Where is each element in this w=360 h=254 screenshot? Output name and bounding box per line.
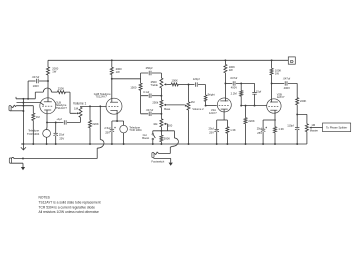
svg-text:220K: 220K xyxy=(300,99,306,103)
node sleeve junction xyxy=(22,110,24,112)
svg-text:Master: Master xyxy=(310,129,318,133)
svg-text:2.5uf: 2.5uf xyxy=(104,126,110,130)
svg-text:1.3K: 1.3K xyxy=(230,128,236,132)
wire J3 sleeve xyxy=(154,158,171,162)
wire treble to bass column xyxy=(160,88,162,100)
svg-text:12AY7: 12AY7 xyxy=(277,95,285,99)
svg-text:25V: 25V xyxy=(59,136,64,140)
node V1B plate junction xyxy=(111,78,113,80)
wire R16 to master node xyxy=(296,105,298,115)
wire jack common down to ground bus xyxy=(22,99,24,144)
potentiometer VR2 250K Treble xyxy=(160,78,163,88)
svg-text:100K: 100K xyxy=(172,79,178,83)
ground chassis symbol at left end of bus xyxy=(21,144,26,150)
resistor R10 100K 1W (V2A plate load) xyxy=(224,64,227,72)
node jack tip junction xyxy=(22,105,24,107)
wire to C12 xyxy=(262,120,264,129)
wire C13 to R16 xyxy=(288,83,297,97)
wire jack switch upper xyxy=(16,97,35,99)
node 2.2M top xyxy=(240,82,242,84)
wire C5 to treble pot xyxy=(152,73,162,78)
triode V2A 12AY7 xyxy=(217,98,231,112)
node V2A supply tap xyxy=(224,59,226,61)
wire V2B grid run xyxy=(241,105,267,107)
svg-text:400V: 400V xyxy=(284,86,290,90)
wire bass bottom xyxy=(160,107,162,113)
triode V2B 12AY7 xyxy=(267,99,281,113)
node jack ground xyxy=(22,143,24,145)
wire R11 to ground xyxy=(226,133,228,144)
svg-text:25V: 25V xyxy=(105,130,110,134)
jack J3 tip contact xyxy=(154,152,159,154)
node V1B supply tap xyxy=(111,59,113,61)
capacitor C13 .047uf 400V xyxy=(285,81,287,85)
wire C1 to input node xyxy=(28,80,35,82)
triode V1A GLB Teledyne TS12AY7 xyxy=(40,98,56,114)
wire cathode to C4 xyxy=(112,121,117,129)
wire B+ supply rail xyxy=(48,59,288,61)
wire master wiper to output xyxy=(312,127,323,129)
wire R2 to volume 1 wiper xyxy=(65,92,76,113)
resistor R11 1.3K xyxy=(226,127,229,134)
wire V2B cathode lead xyxy=(274,110,276,120)
resistor R14 100K 1W (V2B plate load) xyxy=(270,68,273,75)
node R4 junction xyxy=(89,105,91,107)
wire to C14 xyxy=(296,114,298,127)
node R8 ground xyxy=(160,143,162,145)
wire C6 to pot column xyxy=(152,95,162,97)
wire to R11 xyxy=(226,120,228,127)
jack J2 tip contact xyxy=(11,157,15,158)
wire tip to R3 xyxy=(32,106,34,113)
svg-text:400V: 400V xyxy=(231,85,237,89)
node SW1 ground xyxy=(152,143,154,145)
switch SW1 cut-boost xyxy=(152,131,155,144)
wire C7 to mid pot xyxy=(152,113,162,115)
wire R6 to mid cap xyxy=(141,90,149,95)
wire V1A plate supply drop xyxy=(47,60,49,67)
capacitor C9 25uf 25V electrolytic xyxy=(215,128,219,130)
svg-text:To Phase Splitter: To Phase Splitter xyxy=(326,126,347,130)
svg-text:25V: 25V xyxy=(209,131,214,135)
svg-text:1500: 1500 xyxy=(130,85,136,89)
capacitor C11 15pf xyxy=(254,83,256,92)
svg-text:1W: 1W xyxy=(229,68,233,72)
wire main ground bus xyxy=(21,143,307,145)
svg-text:NOTES: NOTES xyxy=(39,196,51,200)
svg-text:1M: 1M xyxy=(311,123,315,127)
svg-text:100V: 100V xyxy=(33,84,39,88)
wire V2A cathode bar xyxy=(217,119,228,121)
wire tone top riser xyxy=(141,73,149,79)
node R12 bottom xyxy=(240,105,242,107)
ground symbol at J3 xyxy=(169,163,173,166)
svg-text:.047uf: .047uf xyxy=(32,75,40,79)
wire V1B plate drop xyxy=(111,60,113,67)
wire jack middle contact xyxy=(17,103,44,106)
capacitor C1 .047uf 100V xyxy=(36,79,38,83)
wire C2 to volume1 bottom xyxy=(67,117,81,122)
wire volume2 bottom to ground xyxy=(188,110,190,144)
wire wiper node to V2A grid xyxy=(206,105,217,107)
wire D1 to ground xyxy=(46,137,48,144)
svg-text:220K: 220K xyxy=(248,119,254,123)
wire plate to C10 xyxy=(225,82,232,84)
node D2 ground xyxy=(123,143,125,145)
svg-text:.047uf: .047uf xyxy=(230,76,238,80)
wire to master pot top xyxy=(297,114,307,123)
svg-text:110pf: 110pf xyxy=(287,124,294,128)
node R11 ground xyxy=(226,143,228,145)
svg-text:220K: 220K xyxy=(58,87,64,91)
node R13 ground xyxy=(245,143,247,145)
svg-text:D: D xyxy=(290,59,294,65)
wire V2A plate drop xyxy=(224,60,226,64)
svg-text:.047uf: .047uf xyxy=(283,76,291,80)
wire plate to C13 xyxy=(272,82,285,84)
current regulator diode D1 Teledyne TCR 1304 xyxy=(43,130,51,138)
svg-text:25uf: 25uf xyxy=(257,127,262,131)
svg-text:220K: 220K xyxy=(92,122,98,126)
svg-text:12AY7: 12AY7 xyxy=(209,111,217,115)
wire bass wiper to volume 2 wiper xyxy=(166,104,185,106)
wire R4 to ground xyxy=(89,128,91,144)
wire master bottom to ground bus end xyxy=(306,132,308,144)
potentiometer VR6 Master 1M xyxy=(305,124,308,132)
wire channel 2 run to jack xyxy=(15,148,97,158)
wire mid wiper stub xyxy=(166,124,168,131)
resistor R9 bright xyxy=(204,95,207,101)
input jack J2 xyxy=(9,158,11,163)
wire C14 to ground xyxy=(296,130,298,144)
wire to R15 xyxy=(274,120,276,127)
svg-text:1M: 1M xyxy=(36,115,40,119)
node bass bottom junction xyxy=(160,113,162,115)
wire volume1 top to V1B grid xyxy=(81,105,107,108)
resistor R5 2000 1W (V1B plate load) xyxy=(110,67,113,74)
potentiometer VR4 10k mid xyxy=(160,119,163,127)
node C3 ground xyxy=(55,143,57,145)
wire jack sleeve xyxy=(10,110,23,112)
wire hop to R2 xyxy=(52,91,58,93)
node V2B plate junction xyxy=(271,82,273,84)
node V1A cathode junction xyxy=(46,121,48,123)
svg-text:1W: 1W xyxy=(275,71,279,75)
svg-text:250k: 250k xyxy=(152,101,158,105)
node master junction xyxy=(296,113,298,115)
wire R14 to plate xyxy=(271,75,273,102)
footswitch jack J3 xyxy=(152,153,154,158)
node mid cap junction xyxy=(160,95,162,97)
node V2A plate junction xyxy=(224,82,226,84)
wire footswitch drop xyxy=(159,146,172,153)
wire to C8 xyxy=(189,84,195,86)
wire channel 2 riser xyxy=(99,106,101,139)
node V2B supply tap xyxy=(271,59,273,61)
resistor R2 220K (grid feed) xyxy=(57,91,65,94)
svg-text:250pf: 250pf xyxy=(146,66,153,70)
svg-text:Volume 2: Volume 2 xyxy=(192,107,204,111)
svg-text:TCR 5304 is a current regulati: TCR 5304 is a current regulative diode xyxy=(39,205,96,209)
svg-text:120pf: 120pf xyxy=(193,77,200,81)
svg-text:10k: 10k xyxy=(153,122,158,126)
wire C10 to grid leak xyxy=(236,82,255,84)
wire cathode to D2 xyxy=(117,121,124,125)
node C14 ground xyxy=(296,143,298,145)
node jack upper junction xyxy=(22,98,24,100)
node R4 ground xyxy=(89,143,91,145)
svg-text:TCR 1304: TCR 1304 xyxy=(129,128,142,132)
triode V1B GLB Teledyne TS12AY7 xyxy=(106,98,122,114)
current regulator diode D2 Teledyne TCR 1304 xyxy=(120,125,128,133)
svg-text:Treble: Treble xyxy=(150,83,158,87)
svg-text:25uf: 25uf xyxy=(59,132,64,136)
ground symbol at J2 xyxy=(21,167,25,170)
wire junction to R4 xyxy=(89,106,91,120)
wire cathode to D1 xyxy=(46,122,48,129)
potentiometer VR1 Volume 1 1M xyxy=(79,107,82,117)
svg-text:.047uf: .047uf xyxy=(146,108,154,112)
wire crossover hop over plate lead xyxy=(43,88,51,92)
svg-text:1W: 1W xyxy=(52,70,56,74)
node jack middle junction xyxy=(22,102,24,104)
wire to C3 xyxy=(55,122,57,133)
resistor R3 1M (input grid leak) xyxy=(32,113,35,120)
wire treble wiper out xyxy=(166,83,171,85)
node C11 bottom xyxy=(254,105,256,107)
wire V2B plate drop xyxy=(271,60,273,68)
wire to mid pot xyxy=(160,114,162,119)
resistor R12 2.2M xyxy=(240,83,242,90)
wire cathode to C2 xyxy=(47,121,63,123)
node C3 junction xyxy=(55,121,57,123)
wire jack tip lead xyxy=(16,105,33,107)
resistor R1 2000 1W (V1A plate load) xyxy=(47,67,50,75)
wire to C9 xyxy=(216,120,218,129)
node D1 ground xyxy=(46,143,48,145)
node channel2 junction xyxy=(99,105,101,107)
wire J2 sleeve to ground xyxy=(10,163,23,167)
wire V1B plate to tone stack xyxy=(112,78,141,80)
capacitor C14 110pf electrolytic xyxy=(295,127,299,129)
resistor R15 1.3K xyxy=(274,127,277,133)
svg-text:Bass: Bass xyxy=(164,107,171,111)
wire R7 to volume2 node xyxy=(178,83,188,85)
svg-text:25V: 25V xyxy=(257,131,262,135)
wire R5 to plate xyxy=(111,75,113,102)
svg-text:1.3K: 1.3K xyxy=(278,127,284,131)
svg-text:500: 500 xyxy=(168,123,173,127)
wire R3 to ground xyxy=(32,121,34,145)
wire C12 to ground xyxy=(262,132,264,144)
svg-text:Boost: Boost xyxy=(142,136,149,140)
resistor R7 100K (treble out) xyxy=(171,83,178,86)
capacitor C7 .047uf bass xyxy=(149,112,151,116)
svg-text:0.1uf: 0.1uf xyxy=(143,90,149,94)
svg-text:1W: 1W xyxy=(116,70,120,74)
wire C8 to bright resistor xyxy=(198,85,206,95)
capacitor C3 25uf 25V electrolytic xyxy=(54,132,58,134)
resistor R16 220K xyxy=(296,98,299,105)
wire R15 to ground xyxy=(274,133,276,144)
svg-text:15pf: 15pf xyxy=(256,89,261,93)
svg-text:TS12AY7: TS12AY7 xyxy=(95,95,107,99)
capacitor C4 2.5uf 25V electrolytic xyxy=(110,128,114,130)
input jack J1 xyxy=(9,106,11,111)
resistor R4 220K xyxy=(89,120,92,127)
wire V1B cathode lead xyxy=(116,110,118,121)
svg-text:1M: 1M xyxy=(191,100,195,104)
svg-text:All resistors 1/2W unless note: All resistors 1/2W unless noted otherwis… xyxy=(39,210,99,214)
resistor R6 1500 (slope) xyxy=(139,83,142,90)
node bright junction xyxy=(205,105,207,107)
wire R9 to wiper node xyxy=(205,101,207,105)
wire mid bottom to cut-boost bar xyxy=(153,127,175,131)
node C9 ground xyxy=(216,143,218,145)
svg-text:+1µf: +1µf xyxy=(56,117,62,121)
node volume2 ground xyxy=(188,143,190,145)
wire V2A cathode lead xyxy=(223,110,225,121)
wire R10 to plate xyxy=(224,73,226,102)
svg-text:500K: 500K xyxy=(164,137,170,141)
wire C9 to ground xyxy=(216,132,218,144)
node V1A plate / cap junction xyxy=(47,80,49,82)
svg-text:TS12AY7: TS12AY7 xyxy=(56,106,68,110)
svg-text:TCR 1304: TCR 1304 xyxy=(27,132,40,136)
resistor R13 220K (V2B grid) xyxy=(245,106,247,118)
capacitor C12 25uf 25V electrolytic xyxy=(261,128,265,130)
wire C4 to ground xyxy=(111,132,113,144)
svg-text:2.2M: 2.2M xyxy=(231,92,238,96)
capacitor C10 .047uf 400V xyxy=(233,81,235,85)
wire plate to C1 xyxy=(39,80,48,82)
capacitor C6 0.1uf xyxy=(149,94,151,98)
node volume2 top junction xyxy=(188,84,190,86)
capacitor C2 +1uf (cathode-volume coupling) xyxy=(64,120,66,124)
node R3 ground xyxy=(32,143,34,145)
potentiometer VR3 250k Bass xyxy=(160,100,163,107)
node C4 ground xyxy=(111,143,113,145)
node R15 ground xyxy=(274,143,276,145)
block To Phase Splitter xyxy=(323,123,351,132)
wire D2 to ground xyxy=(123,133,125,144)
svg-text:Volume 1: Volume 1 xyxy=(73,102,87,106)
node C1 lower junction xyxy=(27,98,29,100)
jack J1 tip contact xyxy=(11,105,16,107)
resistor R8 500K xyxy=(160,131,162,135)
node cut-boost junction xyxy=(160,130,162,132)
node net label D box xyxy=(288,57,295,65)
capacitor C5 250pf treble xyxy=(149,71,151,75)
potentiometer VR5 Volume 2 1M xyxy=(188,85,190,102)
svg-text:Footswitch: Footswitch xyxy=(151,159,164,163)
wire V1A plate lead xyxy=(47,75,49,102)
wire C3 to ground xyxy=(55,136,57,144)
node C12 ground xyxy=(262,143,264,145)
wire V1A cathode lead xyxy=(46,110,48,123)
wire C7 run xyxy=(141,96,149,114)
svg-text:Bright: Bright xyxy=(208,92,215,96)
wire footswitch riser xyxy=(173,131,175,138)
wire channel 2 hop over ground bus xyxy=(97,140,104,149)
svg-text:TS12AY7 is a solid state tube: TS12AY7 is a solid state tube replacemen… xyxy=(39,201,101,205)
capacitor C8 120pf bright xyxy=(195,82,197,86)
svg-text:1M: 1M xyxy=(74,107,79,111)
node V1B cathode junction xyxy=(116,120,118,122)
svg-text:25uf: 25uf xyxy=(209,126,214,130)
wire jog up to grid resistor wire xyxy=(35,92,43,99)
wire V2B cathode bar xyxy=(263,119,276,121)
node R13 top xyxy=(245,105,247,107)
wire footswitch hop over ground bus xyxy=(172,138,178,146)
wire tone slope drop xyxy=(140,79,142,83)
